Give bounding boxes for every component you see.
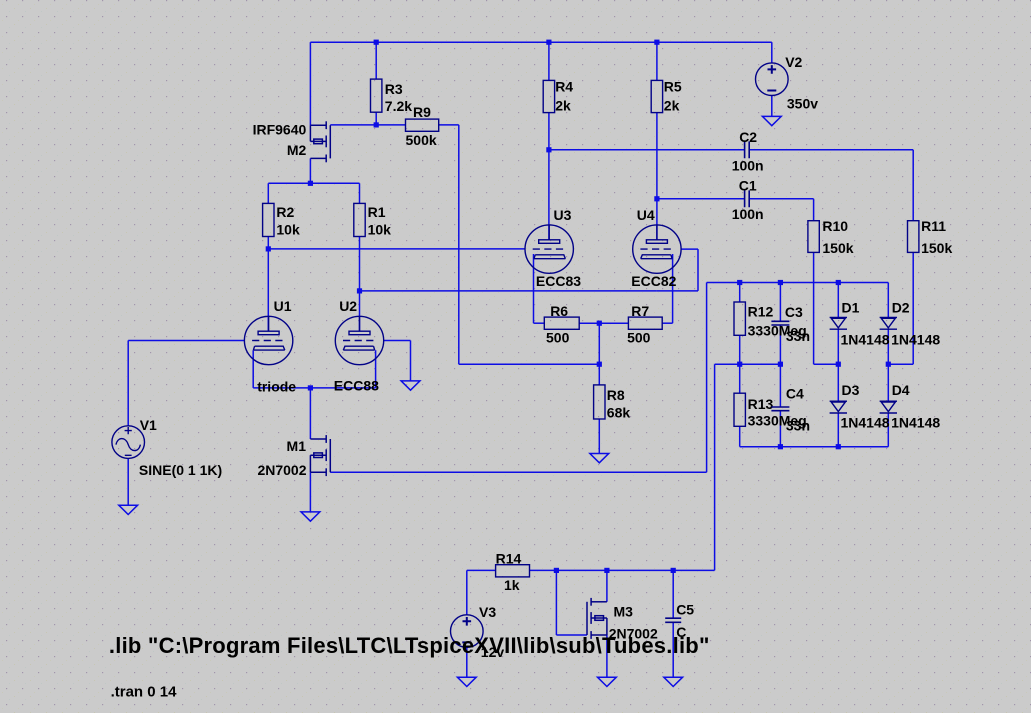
wire U2 grid stub [384, 340, 411, 342]
svg-text:.tran 0 14: .tran 0 14 [111, 684, 178, 701]
wire C3 bottom lead [779, 325, 781, 364]
junction M3 gate [554, 568, 559, 573]
wire bottom rail [530, 569, 715, 571]
wire M3 drain [606, 570, 608, 601]
triode tube U1 triode [244, 316, 292, 364]
resistor R9 500k [406, 119, 439, 131]
wire V1 top lead [127, 341, 129, 426]
resistor R11 150k [908, 221, 919, 253]
wire R8 to ground [598, 419, 600, 454]
wire R9 right lead [439, 124, 459, 126]
svg-text:2k: 2k [555, 98, 571, 114]
wire R12 bottom lead [739, 335, 741, 364]
svg-text:C1: C1 [739, 178, 757, 194]
wire R1 top lead [359, 183, 361, 203]
svg-text:R6: R6 [550, 303, 568, 319]
svg-text:1N4148: 1N4148 [891, 332, 940, 348]
capacitor C5 C [665, 618, 681, 622]
resistor R4 2k [543, 80, 554, 112]
wire M2 drain [309, 158, 311, 183]
wire V3 top lead [466, 570, 468, 614]
wire M3 source to ground [606, 635, 608, 677]
resistor R1 10k [354, 203, 365, 236]
svg-text:triode: triode [257, 378, 296, 394]
svg-text:U2: U2 [339, 298, 357, 314]
diode D4 1N4148 [880, 401, 897, 413]
junction cathodes-M1 drain [308, 385, 313, 390]
svg-text:D2: D2 [892, 299, 910, 315]
wire clamp row A [707, 282, 889, 284]
wire M3 gate stub [556, 634, 587, 636]
wire to R11 top [912, 150, 914, 221]
wire C4 top lead [779, 364, 781, 407]
wire R1 to U2 plate [359, 237, 361, 332]
svg-text:33n: 33n [786, 418, 810, 434]
junction rail-R5 [654, 40, 659, 45]
junction R4-C2 [546, 147, 551, 152]
wire M1 source to ground [309, 472, 311, 512]
wire C2 left [549, 149, 745, 151]
junction rowC-D3 [836, 444, 841, 449]
wire R5 top lead [656, 42, 658, 80]
junction rowA-C3 [778, 280, 783, 285]
svg-text:1k: 1k [504, 577, 520, 593]
junction rowB-R12-R13 [737, 362, 742, 367]
wire U4 cathode drop [672, 254, 674, 323]
wire R6 left lead [534, 322, 545, 324]
junction rail-R4 [546, 40, 551, 45]
wire riser to clamp row A [706, 283, 708, 473]
ground V3 [457, 677, 476, 686]
wire C1 right [749, 198, 813, 200]
capacitor C3 33n [771, 321, 789, 325]
wire M3 gate drop [555, 570, 557, 635]
svg-text:1N4148: 1N4148 [891, 414, 940, 430]
wire M2 source to rail [309, 42, 311, 125]
voltage source V3 12v [451, 615, 484, 648]
svg-text:D1: D1 [842, 299, 860, 315]
junction C5 top [671, 568, 676, 573]
wire R13 bottom lead [739, 426, 741, 446]
svg-text:U1: U1 [274, 298, 292, 314]
svg-text:2k: 2k [664, 98, 680, 114]
capacitor C1 100n [745, 190, 750, 207]
wire V1 to U1 grid [128, 340, 244, 342]
capacitor C2 100n [745, 141, 750, 158]
wire D1 anode [837, 283, 839, 318]
ground V1 [119, 505, 138, 514]
wire to R8 top [598, 323, 600, 385]
wire C1 left [657, 198, 745, 200]
wire R10 bottom riser [813, 252, 815, 364]
resistor R14 1k [496, 565, 530, 577]
ground V2 [762, 116, 781, 125]
wire R13 top lead [739, 364, 741, 393]
wire R6-R7 node [579, 322, 628, 324]
svg-text:C4: C4 [786, 386, 804, 402]
resistor R8 68k [594, 385, 605, 419]
resistor R13 3330Meg [734, 393, 745, 426]
svg-text:C3: C3 [785, 304, 803, 320]
svg-text:500: 500 [627, 330, 651, 346]
resistor R7 500 [628, 317, 662, 329]
wire R5 to U4 plate [656, 113, 658, 240]
junction R1-U2 plate [357, 288, 362, 293]
svg-text:ECC83: ECC83 [536, 273, 581, 289]
diode D1 1N4148 [830, 317, 847, 329]
wire V3 to ground [466, 647, 468, 677]
resistor R12 3330Meg [734, 302, 745, 335]
svg-text:ECC88: ECC88 [334, 378, 379, 394]
wire D1 cathode [837, 329, 839, 364]
junction M3 drain [604, 568, 609, 573]
voltage source V1 SINE(0 1 1K) [112, 426, 145, 459]
diode D3 1N4148 [830, 401, 847, 413]
wire U3 cathode drop [533, 254, 535, 323]
svg-text:R9: R9 [413, 104, 431, 120]
svg-text:R12: R12 [748, 304, 774, 320]
svg-text:R1: R1 [368, 204, 386, 220]
wire V1 to ground [127, 458, 129, 505]
wire U2 grid to ground [410, 341, 412, 381]
junction rowB-D2-D4 [886, 362, 891, 367]
wire clamp row B right [888, 363, 913, 365]
svg-text:M2: M2 [287, 142, 307, 158]
svg-text:U3: U3 [554, 207, 572, 223]
wire V2 to ground [771, 96, 773, 117]
svg-text:ECC82: ECC82 [631, 273, 676, 289]
wire U2 cathode drop [375, 350, 377, 388]
wire U3 grid net [268, 248, 525, 250]
svg-text:10k: 10k [276, 222, 300, 238]
svg-text:68k: 68k [607, 404, 631, 420]
NMOS transistor M3 2N7002 [587, 598, 607, 639]
junction rowA-D1 [836, 280, 841, 285]
svg-text:500k: 500k [406, 132, 437, 148]
wire R2-R1 top [268, 182, 359, 184]
svg-text:R11: R11 [921, 218, 946, 234]
wire R2 top lead [267, 183, 269, 203]
wire R9 riser down [458, 125, 460, 364]
svg-text:D4: D4 [892, 382, 910, 398]
wire D2 anode [887, 283, 889, 318]
svg-text:R7: R7 [631, 303, 649, 319]
wire M1 gate long run [330, 471, 706, 473]
wire bias row to R8 node [459, 363, 600, 365]
triode tube U2 ECC88 [335, 316, 383, 364]
svg-text:M1: M1 [287, 438, 307, 454]
svg-text:R3: R3 [385, 81, 403, 97]
wire D3 anode [837, 364, 839, 401]
triode tube U3 ECC83 [525, 225, 573, 273]
wire C4 bottom lead [779, 411, 781, 447]
wire M2 gate to R9 [330, 124, 405, 126]
wire U2 cathode to node [310, 387, 375, 389]
svg-text:R4: R4 [555, 78, 573, 94]
svg-text:.lib "C:\Program Files\LTC\LTs: .lib "C:\Program Files\LTC\LTspiceXVII\l… [109, 633, 710, 658]
svg-text:100n: 100n [732, 206, 764, 222]
svg-text:10k: 10k [368, 222, 392, 238]
wire D2 cathode [887, 329, 889, 364]
junction rowA-R12 [737, 280, 742, 285]
svg-text:7.2k: 7.2k [385, 98, 412, 114]
svg-text:100n: 100n [732, 158, 764, 174]
svg-text:IRF9640: IRF9640 [253, 121, 307, 137]
wire U4 grid stub [681, 248, 698, 250]
wire R3 bottom lead [375, 112, 377, 125]
ground M1 source [301, 512, 320, 521]
svg-text:M3: M3 [614, 603, 634, 619]
wire D4 anode [887, 364, 889, 401]
svg-text:150k: 150k [921, 240, 952, 256]
junction M2 drain [308, 181, 313, 186]
wire clamp row B left [715, 363, 781, 365]
wire C5 top lead [672, 570, 674, 618]
wire C3 top lead [779, 283, 781, 322]
svg-text:150k: 150k [822, 240, 853, 256]
svg-text:350v: 350v [787, 96, 818, 112]
junction R6-R7 [597, 321, 602, 326]
svg-text:R14: R14 [496, 551, 522, 567]
wire M1 drain [309, 388, 311, 439]
wire R11 bottom riser [912, 252, 914, 364]
wire R14 left lead [467, 569, 496, 571]
wire top supply rail [310, 41, 771, 43]
junction rowB-C3-C4 [778, 362, 783, 367]
wire U4 grid net right [657, 290, 698, 292]
svg-text:33n: 33n [786, 328, 810, 344]
junction R2-U1 plate [266, 246, 271, 251]
svg-text:SINE(0 1 1K): SINE(0 1 1K) [139, 462, 222, 478]
ground C5 [664, 677, 683, 686]
svg-text:1N4148: 1N4148 [841, 414, 890, 430]
diode D2 1N4148 [880, 317, 897, 329]
resistor R2 10k [263, 203, 274, 236]
svg-text:V1: V1 [140, 417, 157, 433]
svg-text:C5: C5 [676, 602, 694, 618]
junction rail-R3 [374, 40, 379, 45]
svg-text:R5: R5 [664, 78, 682, 94]
wire to R10 top [813, 199, 815, 221]
wire R4 to U3 plate [548, 113, 550, 240]
wire clamp row C [740, 446, 889, 448]
junction R5-C1 [654, 196, 659, 201]
wire R4 top lead [548, 42, 550, 80]
wire U4 grid drop [697, 249, 699, 291]
svg-text:R13: R13 [748, 396, 774, 412]
wire D3 cathode [837, 413, 839, 447]
wire R3 top lead [375, 42, 377, 79]
wire clamp row B mid [814, 363, 839, 365]
svg-text:R2: R2 [276, 204, 294, 220]
NMOS transistor M1 2N7002 [310, 435, 330, 476]
resistor R10 150k [808, 221, 819, 253]
wire R12 top lead [739, 283, 741, 303]
wire U1 cathode to node [253, 387, 310, 389]
wire R7 right lead [662, 322, 672, 324]
wire C2 right [749, 149, 913, 151]
wire U1 cathode drop [252, 350, 254, 388]
svg-text:2N7002: 2N7002 [257, 462, 306, 478]
junction R3-R9-M2 gate [374, 122, 379, 127]
wire D4 cathode [887, 413, 889, 447]
svg-text:R8: R8 [607, 387, 625, 403]
svg-text:500: 500 [546, 330, 570, 346]
wire V2 top lead [771, 42, 773, 63]
resistor R5 2k [651, 80, 662, 112]
resistor R6 500 [544, 317, 579, 329]
junction rowC-C4 [778, 444, 783, 449]
svg-text:D3: D3 [842, 382, 860, 398]
ground U2 grid [401, 381, 420, 390]
junction rowB-D1-D3 [836, 362, 841, 367]
svg-text:R10: R10 [822, 218, 848, 234]
voltage source V2 350v [756, 63, 789, 96]
resistor R3 7.2k [371, 79, 382, 112]
triode tube U4 ECC82 [633, 225, 681, 273]
svg-text:U4: U4 [637, 207, 655, 223]
ground M3 [598, 677, 617, 686]
wire R2 to U1 plate [267, 237, 269, 332]
wire C5 bottom lead [672, 622, 674, 677]
wire riser row B to bottom rail [714, 364, 716, 570]
wire U4 grid net [360, 290, 657, 292]
junction R8 top [597, 362, 602, 367]
capacitor C4 33n [771, 407, 789, 411]
svg-text:V3: V3 [479, 604, 496, 620]
ground R8 [590, 454, 609, 463]
svg-text:C2: C2 [739, 129, 757, 145]
PMOS transistor M2 IRF9640 [310, 121, 330, 162]
svg-text:V2: V2 [785, 54, 802, 70]
svg-text:1N4148: 1N4148 [841, 332, 890, 348]
